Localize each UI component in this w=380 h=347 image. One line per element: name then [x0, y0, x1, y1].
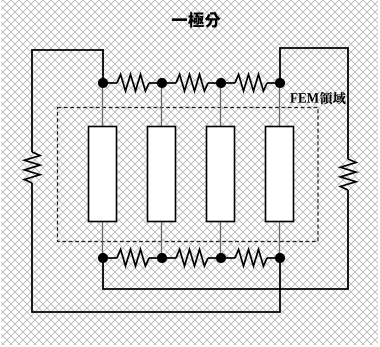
node G (bottom junction) — [216, 253, 226, 263]
FEM region dashed boundary — [58, 108, 319, 242]
node F (bottom junction) — [157, 253, 167, 263]
wire stub element 1 bottom to node E — [102, 222, 104, 259]
wire stub element 4 bottom to node H — [279, 222, 281, 259]
node D (top junction) — [275, 78, 285, 88]
resistor R4 (bottom row) — [103, 257, 117, 259]
FEM element bar 2 — [148, 127, 176, 222]
node C (top junction) — [216, 78, 226, 88]
wire stub element 3 bottom to node G — [220, 222, 222, 259]
wire stub element 2 bottom to node F — [161, 222, 163, 259]
wire stub node C to element 3 top — [220, 83, 222, 127]
wire: top-left loop (left resistor top to node A) — [32, 50, 103, 152]
title text 一極分 — [172, 12, 221, 28]
node A (top junction) — [98, 78, 108, 88]
wire: top-right loop (node D to right resistor top) — [280, 48, 348, 159]
node B (top junction) — [157, 78, 167, 88]
resistor R8 (right vertical) — [340, 159, 356, 190]
node H (bottom junction) — [275, 253, 285, 263]
FEM element bar 4 — [266, 127, 294, 222]
resistor R3 (top row) — [221, 82, 235, 84]
wire: bottom-inner loop (node E to right resistor bottom) — [103, 190, 348, 289]
resistor R1 (top row) — [103, 82, 117, 84]
wire stub node D to element 4 top — [279, 83, 281, 127]
resistor R6 (bottom row) — [221, 257, 235, 259]
node E (bottom junction) — [98, 253, 108, 263]
wire: bottom-outer loop (node H to left resistor bottom) — [32, 183, 280, 312]
resistor R7 (left vertical) — [24, 152, 40, 183]
resistor R5 (bottom row) — [162, 257, 176, 259]
wire stub node A to element 1 top — [102, 83, 104, 127]
wire stub node B to element 2 top — [161, 83, 163, 127]
label FEM領域 — [290, 92, 345, 104]
FEM element bar 3 — [207, 127, 235, 222]
resistor R2 (top row) — [162, 82, 176, 84]
FEM element bar 1 — [89, 127, 117, 222]
